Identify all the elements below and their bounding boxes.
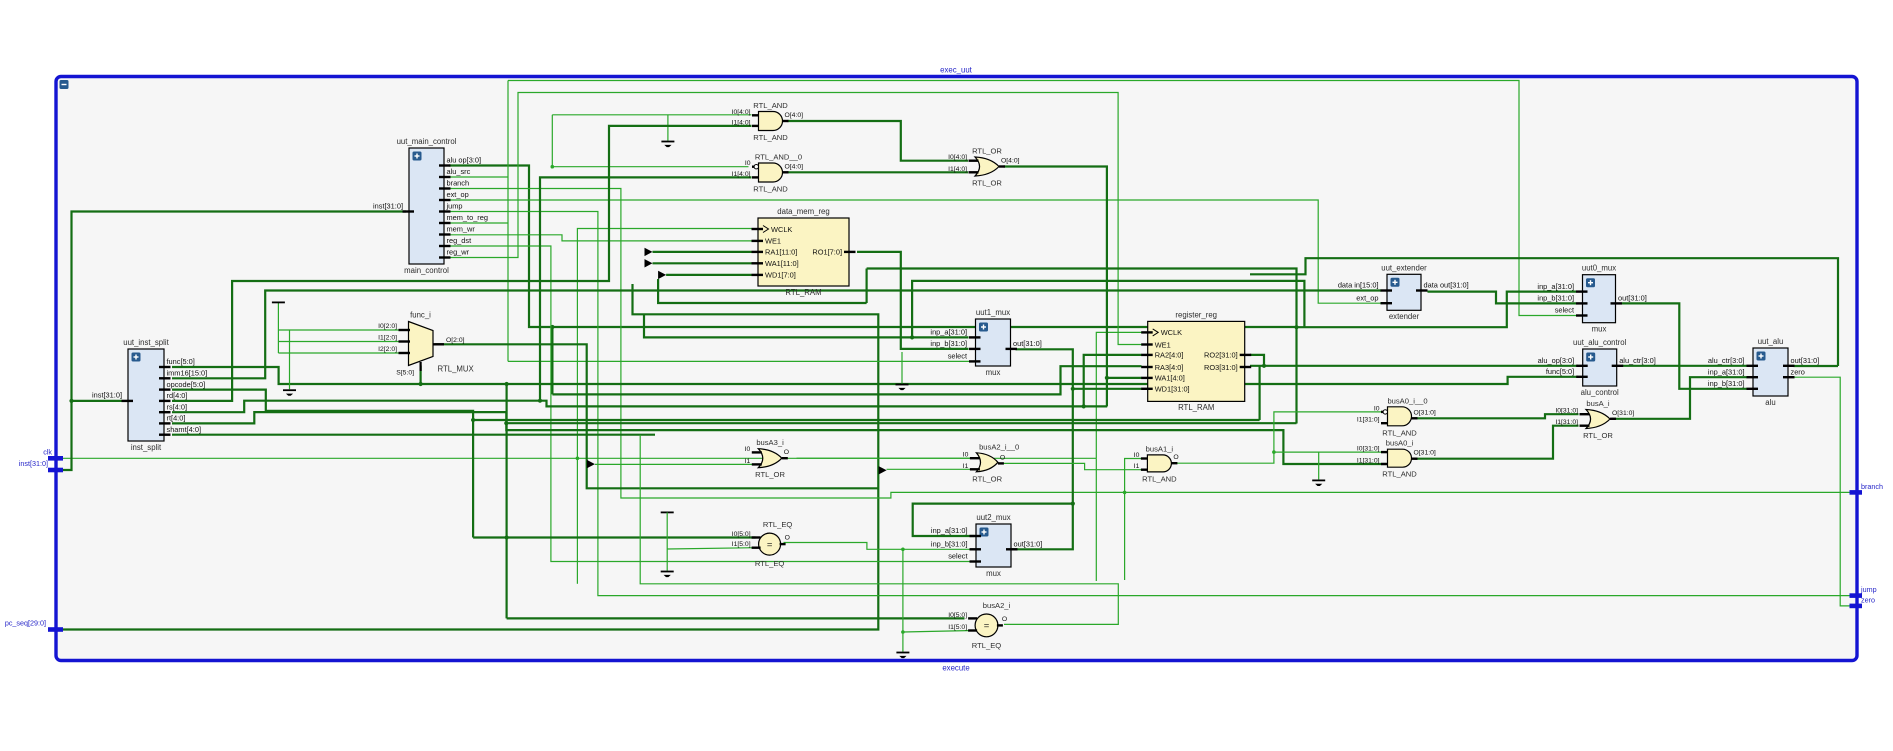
svg-text:RTL_AND: RTL_AND xyxy=(753,185,788,194)
wire eq1 const chain xyxy=(666,512,668,570)
module uut_extender xyxy=(1338,263,1469,321)
wire func_i I2 feed xyxy=(278,352,402,354)
wire alu_src / mem_to_reg vertical xyxy=(507,81,509,362)
svg-text:func[5:0]: func[5:0] xyxy=(1546,367,1574,376)
svg-text:I1[2:0]: I1[2:0] xyxy=(378,334,397,341)
wire busA2_i O return xyxy=(640,435,1118,625)
mux uut1_mux xyxy=(930,308,1041,377)
junction alu_op / RA3 riser xyxy=(550,325,554,329)
svg-text:inst[31:0]: inst[31:0] xyxy=(373,202,403,211)
svg-text:I1[5:0]: I1[5:0] xyxy=(732,541,751,548)
svg-text:O[4:0]: O[4:0] xyxy=(1001,158,1020,165)
wire uut1_mux inp_a feed xyxy=(644,314,969,337)
wire busA3_i I1 feed xyxy=(595,463,752,465)
svg-text:exec_uut: exec_uut xyxy=(940,66,972,75)
svg-text:S[5:0]: S[5:0] xyxy=(396,370,414,377)
wire WA1 feed xyxy=(653,262,752,264)
svg-text:alu_src: alu_src xyxy=(447,167,471,176)
svg-text:func[5:0]: func[5:0] xyxy=(167,357,195,366)
junction rt split xyxy=(504,421,508,425)
wire busA2_i I1 chain xyxy=(902,549,904,651)
svg-text:busA0_i__0: busA0_i__0 xyxy=(1387,396,1427,405)
svg-text:I1[4:0]: I1[4:0] xyxy=(732,119,751,126)
wire RO3 row drop to east row xyxy=(1258,366,1260,420)
wire R3 trunk xyxy=(912,281,1304,338)
svg-text:alu_op[3:0]: alu_op[3:0] xyxy=(1538,356,1575,365)
port zero xyxy=(1850,595,1875,606)
svg-text:imm16[15:0]: imm16[15:0] xyxy=(167,369,208,378)
svg-text:RTL_AND: RTL_AND xyxy=(753,101,788,110)
svg-text:uut_alu_control: uut_alu_control xyxy=(1573,338,1627,347)
svg-text:jump: jump xyxy=(1860,585,1877,594)
svg-text:O[31:0]: O[31:0] xyxy=(1414,409,1436,416)
svg-text:out[31:0]: out[31:0] xyxy=(1013,339,1042,348)
svg-text:inst_split: inst_split xyxy=(131,443,162,452)
svg-text:select: select xyxy=(1555,306,1574,315)
wire func_i const chain xyxy=(277,302,279,353)
wire func[5:0] to RTL_MUX select xyxy=(172,367,1578,384)
svg-text:RTL_EQ: RTL_EQ xyxy=(972,641,1001,650)
svg-text:I1[5:0]: I1[5:0] xyxy=(948,624,967,631)
wire RO3[31:0] to alu_control alu_op xyxy=(1250,365,1578,367)
svg-text:ext_op: ext_op xyxy=(447,190,469,199)
junction R2 / reg-file row xyxy=(1294,325,1298,329)
svg-text:I1[31:0]: I1[31:0] xyxy=(1357,458,1380,465)
svg-text:inp_a[31:0]: inp_a[31:0] xyxy=(1537,282,1574,291)
junction func / eq tap xyxy=(505,382,509,386)
junction mux1 out / register WD1 xyxy=(1071,387,1075,391)
junction clk / data_mem branch xyxy=(576,457,580,461)
svg-text:alu op[3:0]: alu op[3:0] xyxy=(447,156,482,165)
svg-text:RTL_OR: RTL_OR xyxy=(972,179,1002,188)
wire alu_op[3:0] xyxy=(449,166,1297,328)
wire RTL_AND O to RTL_OR I0 xyxy=(788,121,969,161)
svg-text:data out[31:0]: data out[31:0] xyxy=(1424,281,1469,290)
svg-text:RTL_OR: RTL_OR xyxy=(1583,431,1613,440)
wire writeback trunk R2 xyxy=(867,269,1297,424)
svg-text:uut2_mux: uut2_mux xyxy=(976,513,1010,522)
wire RA3 row west riser xyxy=(551,327,553,394)
and gate RTL_AND (top) xyxy=(732,101,804,142)
wire func_i output O[2:0] xyxy=(435,344,878,488)
svg-text:I0: I0 xyxy=(1374,405,1380,412)
svg-text:out[31:0]: out[31:0] xyxy=(1014,540,1043,549)
wire rs[4:0] xyxy=(172,401,1107,413)
module uut_alu_control xyxy=(1538,338,1656,397)
svg-text:RTL_AND__0: RTL_AND__0 xyxy=(755,153,802,162)
wire alu_src stub xyxy=(449,176,508,178)
svg-text:zero: zero xyxy=(1861,595,1875,604)
wire jump xyxy=(449,212,1850,596)
and gate busA0_i__0 xyxy=(1357,396,1436,437)
ram register_reg (RTL_RAM) xyxy=(1141,310,1251,412)
svg-text:register_reg: register_reg xyxy=(1175,310,1217,319)
svg-text:WCLK: WCLK xyxy=(771,225,792,234)
wire RO2[31:0] xyxy=(1250,355,1264,366)
wire alu_src top run to uut0_mux select xyxy=(508,81,1576,316)
svg-text:uut_alu: uut_alu xyxy=(1758,337,1784,346)
and gate busA1_i xyxy=(1134,444,1179,483)
svg-text:clk: clk xyxy=(43,447,52,456)
wire func_i I0 feed xyxy=(278,329,402,331)
svg-text:RO1[7:0]: RO1[7:0] xyxy=(812,248,842,257)
wire opcode east branch xyxy=(473,419,1260,421)
junction inp_b / busA2 drop xyxy=(901,548,905,552)
junction busA1_i O split xyxy=(1272,450,1276,454)
svg-text:reg_wr: reg_wr xyxy=(447,248,470,257)
svg-text:busA1_i: busA1_i xyxy=(1146,444,1174,453)
const one bar (func_i) xyxy=(272,301,285,303)
wire busA0_i O to busA_i I1 xyxy=(1415,426,1579,459)
svg-text:inp_b[31:0]: inp_b[31:0] xyxy=(1537,294,1574,303)
or gate busA_i xyxy=(1555,399,1634,440)
junction inp_a row / R3 drop xyxy=(910,335,914,339)
svg-text:I0[2:0]: I0[2:0] xyxy=(378,323,397,330)
mux uut0_mux xyxy=(1537,264,1646,334)
svg-text:data in[15:0]: data in[15:0] xyxy=(1338,281,1379,290)
svg-text:O: O xyxy=(1002,616,1007,623)
wire clk rise to register WCLK xyxy=(1096,332,1141,458)
wire func mux S stub xyxy=(420,366,422,385)
wire alu_ctr[3:0] xyxy=(1622,365,1747,367)
junction OR trunk / WA1 xyxy=(1105,376,1109,380)
svg-text:RTL_EQ: RTL_EQ xyxy=(763,520,792,529)
junction branch row / busA1_i I0 xyxy=(1123,491,1127,495)
svg-text:I0[4:0]: I0[4:0] xyxy=(732,109,751,116)
and gate busA0_i xyxy=(1357,439,1436,479)
svg-text:RTL_AND: RTL_AND xyxy=(1382,470,1417,479)
wire uut0_mux out to alu inp_b xyxy=(1622,303,1747,388)
svg-text:out[31:0]: out[31:0] xyxy=(1618,294,1647,303)
svg-text:out[31:0]: out[31:0] xyxy=(1791,356,1820,365)
wire alu-out return xyxy=(1250,258,1838,366)
wire vertical net near register xyxy=(1095,458,1097,581)
or gate busA2_i__0 xyxy=(963,442,1019,483)
svg-text:I0: I0 xyxy=(745,446,751,453)
wire busA3_i O to busA2_i__0 I0 xyxy=(797,457,976,459)
svg-text:alu_control: alu_control xyxy=(1581,388,1619,397)
svg-text:select: select xyxy=(948,552,967,561)
svg-text:func_i: func_i xyxy=(410,311,431,320)
svg-text:WA1[11:0]: WA1[11:0] xyxy=(765,259,799,268)
svg-text:pc_seq[29:0]: pc_seq[29:0] xyxy=(5,619,46,628)
svg-text:inp_a[31:0]: inp_a[31:0] xyxy=(930,328,967,337)
svg-text:alu_ctr[3:0]: alu_ctr[3:0] xyxy=(1619,356,1656,365)
wire busA2_i__0 O to busA1_i I1 xyxy=(1003,463,1145,469)
svg-text:RA2[4:0]: RA2[4:0] xyxy=(1155,351,1184,360)
wire busA1_i O to busA0 gates xyxy=(1175,412,1385,463)
wire WA1 feed from OR output trunk xyxy=(1107,377,1142,379)
svg-text:I1[31:0]: I1[31:0] xyxy=(1357,417,1380,424)
svg-text:rt[4:0]: rt[4:0] xyxy=(167,414,186,423)
wire EQ1 O to uut2_mux inp_b xyxy=(784,543,975,550)
svg-text:mem_to_reg: mem_to_reg xyxy=(447,213,489,222)
svg-text:RTL_RAM: RTL_RAM xyxy=(785,288,821,297)
svg-text:I0[31:0]: I0[31:0] xyxy=(1357,446,1380,453)
wire const0 ground drop xyxy=(667,115,669,141)
svg-text:O: O xyxy=(1000,454,1005,461)
wire pc_seq[29:0] xyxy=(57,284,878,630)
svg-text:RTL_EQ: RTL_EQ xyxy=(755,559,784,568)
svg-text:I0: I0 xyxy=(745,160,751,167)
svg-text:WE1: WE1 xyxy=(765,237,781,246)
svg-text:=: = xyxy=(767,539,773,550)
svg-text:I0[5:0]: I0[5:0] xyxy=(948,612,967,619)
wire const0 to RTL_AND__0 I0 xyxy=(552,166,748,168)
svg-text:RTL_AND: RTL_AND xyxy=(1142,474,1177,483)
junction mux1 out / mem row xyxy=(1071,502,1075,506)
wire rt[4:0] xyxy=(172,412,1387,464)
wire func_i const ground leg xyxy=(289,330,291,389)
wire eq feed vertical xyxy=(506,384,508,618)
svg-text:inp_b[31:0]: inp_b[31:0] xyxy=(1708,379,1745,388)
wire reg-file row to uut0_mux inp_a xyxy=(1297,292,1577,328)
svg-text:RTL_OR: RTL_OR xyxy=(972,474,1002,483)
svg-text:alu_ctr[3:0]: alu_ctr[3:0] xyxy=(1708,356,1745,365)
ground busA2_i xyxy=(896,653,909,659)
svg-text:rs[4:0]: rs[4:0] xyxy=(167,402,188,411)
svg-text:O[31:0]: O[31:0] xyxy=(1612,410,1634,417)
svg-text:O: O xyxy=(1173,454,1178,461)
svg-text:zero: zero xyxy=(1791,367,1805,376)
svg-text:I0[5:0]: I0[5:0] xyxy=(732,531,751,538)
svg-text:opcode[5:0]: opcode[5:0] xyxy=(167,380,206,389)
svg-text:select: select xyxy=(948,352,967,361)
wire inst[31:0] from port xyxy=(57,212,406,471)
wire RO1 to uut1_mux inp_b xyxy=(857,252,969,349)
svg-text:=: = xyxy=(984,621,990,632)
ground near RTL_AND xyxy=(661,142,674,148)
svg-text:O: O xyxy=(785,535,790,542)
junction eq1 I0 tap xyxy=(505,535,509,539)
svg-text:WE1: WE1 xyxy=(1155,340,1171,349)
net arrow RA1 xyxy=(645,248,653,256)
wire RA2 riser xyxy=(1084,355,1142,407)
wire shamt[4:0] xyxy=(172,434,655,436)
svg-text:RA1[11:0]: RA1[11:0] xyxy=(765,248,797,257)
and gate RTL_AND__0 xyxy=(732,153,804,194)
svg-text:RTL_AND: RTL_AND xyxy=(753,133,788,142)
svg-text:RTL_AND: RTL_AND xyxy=(1382,428,1417,437)
wire rd[4:0] xyxy=(172,126,752,401)
wire EQ1 I1 feed xyxy=(667,548,755,549)
wire rt to busA0_i__0 I1 row xyxy=(506,422,1296,424)
svg-text:RTL_OR: RTL_OR xyxy=(972,147,1002,156)
svg-text:branch: branch xyxy=(447,179,470,188)
wire imm16[15:0] to extender xyxy=(172,291,1381,379)
wire RA3 row xyxy=(552,366,1141,394)
svg-text:O: O xyxy=(784,449,789,456)
svg-text:busA2_i: busA2_i xyxy=(983,601,1011,610)
svg-text:inst[31:0]: inst[31:0] xyxy=(19,459,48,468)
svg-text:RTL_OR: RTL_OR xyxy=(755,470,785,479)
junction inst bus xyxy=(69,399,73,403)
collapse icon xyxy=(60,80,69,89)
svg-text:uut_extender: uut_extender xyxy=(1381,263,1427,272)
ground near busA0_i xyxy=(1312,480,1325,486)
svg-text:O[4:0]: O[4:0] xyxy=(785,112,804,119)
svg-text:I1: I1 xyxy=(1134,463,1140,470)
wire select gnd drop xyxy=(901,352,903,384)
port jump xyxy=(1850,585,1877,596)
junction rs row / RA2 riser xyxy=(1082,404,1086,408)
svg-text:uut0_mux: uut0_mux xyxy=(1582,264,1616,273)
svg-text:mux: mux xyxy=(986,569,1001,578)
wire register WD1 feed xyxy=(1073,388,1142,390)
port pc_seq[29:0] xyxy=(5,619,63,630)
svg-text:alu: alu xyxy=(1765,398,1775,407)
net arrow pc_seq tap to busA2_i__0.I1 xyxy=(879,466,887,474)
svg-text:inp_b[31:0]: inp_b[31:0] xyxy=(930,339,967,348)
wire busA2_i I1 feed xyxy=(903,631,973,633)
svg-text:RO3[31:0]: RO3[31:0] xyxy=(1204,363,1238,372)
wire busA0_i__0 O to busA_i I0 xyxy=(1415,414,1579,418)
port inst[31:0] xyxy=(19,459,63,470)
svg-text:mux: mux xyxy=(986,368,1001,377)
svg-text:I2[2:0]: I2[2:0] xyxy=(378,346,397,353)
svg-text:branch: branch xyxy=(1861,482,1883,491)
svg-text:WD1[31:0]: WD1[31:0] xyxy=(1155,385,1190,394)
wire opcode[5:0] xyxy=(172,390,473,538)
wire alu zero xyxy=(1794,377,1851,606)
svg-text:shamt[4:0]: shamt[4:0] xyxy=(167,425,202,434)
junction opcode branch xyxy=(471,418,475,422)
svg-text:inp_a[31:0]: inp_a[31:0] xyxy=(931,526,968,535)
svg-text:reg_dst: reg_dst xyxy=(447,236,472,245)
wire RA1 feed xyxy=(653,251,752,253)
svg-text:I0: I0 xyxy=(963,452,969,459)
wire WD1 south trunk xyxy=(658,279,867,303)
module uut_inst_split U2 xyxy=(122,338,208,452)
wire RTL_AND__0 O to RTL_OR I1 xyxy=(788,171,969,173)
port branch xyxy=(1850,482,1883,493)
net arrow WD1 xyxy=(658,271,666,279)
or gate busA3_i xyxy=(745,438,789,479)
junction RO2 / RO3 row xyxy=(1262,364,1266,368)
svg-text:jump: jump xyxy=(446,202,463,211)
ram data_mem_reg (RTL_RAM) xyxy=(752,207,856,297)
net arrow WA1 xyxy=(645,259,653,267)
svg-text:I0: I0 xyxy=(1134,452,1140,459)
ground eq1 const xyxy=(661,572,674,578)
wire clk trunk xyxy=(57,457,1096,459)
wire busA_i O to alu inp_a xyxy=(1612,377,1748,419)
wire WD1 feed xyxy=(666,274,751,276)
wire busA2_i I0 feed xyxy=(507,617,965,619)
svg-text:rd[4:0]: rd[4:0] xyxy=(167,391,188,400)
eq gate RTL_EQ xyxy=(732,520,793,568)
junction const0 xyxy=(551,165,555,169)
ground near uut1_mux xyxy=(896,385,909,391)
mux func_i (RTL_MUX) xyxy=(378,311,474,377)
wire clk rise to data_mem WCLK xyxy=(577,229,751,459)
wire const0 vertical xyxy=(551,115,553,167)
wire busA1_i I0 riser xyxy=(1125,459,1145,581)
wire func_i I1 feed xyxy=(278,341,402,343)
svg-text:I1: I1 xyxy=(745,458,751,465)
wire mem_to_reg stub xyxy=(449,222,508,224)
svg-text:mem_wr: mem_wr xyxy=(447,225,476,234)
svg-text:I1: I1 xyxy=(963,463,969,470)
svg-text:busA_i: busA_i xyxy=(1586,399,1610,408)
svg-text:O[2:0]: O[2:0] xyxy=(446,337,465,344)
mux uut2_mux xyxy=(931,513,1042,578)
svg-text:busA3_i: busA3_i xyxy=(756,438,784,447)
wire trunk R2 vertical head xyxy=(865,269,867,304)
svg-text:inp_a[31:0]: inp_a[31:0] xyxy=(1708,367,1745,376)
svg-text:I1[31:0]: I1[31:0] xyxy=(1555,419,1578,426)
svg-text:WA1[4:0]: WA1[4:0] xyxy=(1155,374,1185,383)
module uut_alu xyxy=(1708,337,1819,407)
svg-text:inp_b[31:0]: inp_b[31:0] xyxy=(931,540,968,549)
svg-text:extender: extender xyxy=(1389,312,1420,321)
or gate RTL_OR (top) xyxy=(948,147,1020,188)
wire inst[31:0] branch to inst_split xyxy=(72,400,123,402)
wire alu out xyxy=(1794,365,1839,367)
svg-text:uut1_mux: uut1_mux xyxy=(976,308,1010,317)
svg-text:WD1[7:0]: WD1[7:0] xyxy=(765,271,796,280)
module boundary exec_uut / execute (blue frame) xyxy=(56,77,1857,661)
svg-text:data_mem_reg: data_mem_reg xyxy=(777,207,829,216)
junction busA2_i I1 xyxy=(901,630,905,634)
junction func / mux S tap xyxy=(419,382,423,386)
wire reg_dst to uut2_mux select xyxy=(449,246,993,562)
wire pc_seq tap to busA2_i__0 I1 xyxy=(887,468,975,470)
wire reg_wr to register WE1 xyxy=(449,93,1142,345)
wire clk drop to return row xyxy=(576,458,578,584)
junction rs / gate feed xyxy=(538,399,542,403)
svg-text:WCLK: WCLK xyxy=(1161,328,1182,337)
svg-text:I0[4:0]: I0[4:0] xyxy=(948,154,967,161)
const bar (eq1) xyxy=(661,511,674,513)
svg-text:I1[4:0]: I1[4:0] xyxy=(732,171,751,178)
module uut_main_control U1 xyxy=(397,137,488,275)
svg-text:RO2[31:0]: RO2[31:0] xyxy=(1204,351,1238,360)
eq gate busA2_i xyxy=(948,601,1010,650)
wire mem_to_reg to uut1_mux select xyxy=(508,360,969,362)
svg-text:inst[31:0]: inst[31:0] xyxy=(92,391,122,400)
svg-text:O[4:0]: O[4:0] xyxy=(785,163,804,170)
wire busA0_i I0 gnd drop xyxy=(1318,452,1320,479)
svg-text:RTL_MUX: RTL_MUX xyxy=(438,365,475,374)
svg-text:execute: execute xyxy=(942,664,969,673)
ground func_i xyxy=(283,390,296,396)
wire branch xyxy=(449,189,1850,499)
svg-text:I0[31:0]: I0[31:0] xyxy=(1555,408,1578,415)
svg-text:RA3[4:0]: RA3[4:0] xyxy=(1155,363,1184,372)
net arrow func_i tap to busA3_i.I1 xyxy=(587,460,595,468)
svg-text:ext_op: ext_op xyxy=(1356,293,1378,302)
wire const0 to RTL_AND I0 xyxy=(552,114,751,116)
wire mem row west xyxy=(913,504,1073,536)
svg-text:RTL_RAM: RTL_RAM xyxy=(1178,403,1214,412)
svg-text:uut_main_control: uut_main_control xyxy=(397,137,457,146)
wire ext_op xyxy=(449,200,1381,303)
wire data_out to uut0_mux inp_b xyxy=(1428,292,1577,304)
svg-text:uut_inst_split: uut_inst_split xyxy=(123,338,169,347)
wire mem_wr to data_mem WE1 xyxy=(449,235,752,241)
svg-text:main_control: main_control xyxy=(404,266,449,275)
wire RTL_AND__0 I1 feed xyxy=(540,177,752,400)
svg-text:busA0_i: busA0_i xyxy=(1386,439,1414,448)
svg-text:I1[4:0]: I1[4:0] xyxy=(948,166,967,173)
wire busA0_i I0 feed xyxy=(1274,451,1387,453)
svg-text:mux: mux xyxy=(1592,325,1607,334)
svg-text:O[31:0]: O[31:0] xyxy=(1414,450,1436,457)
port clk xyxy=(43,447,63,458)
wire uut1_mux out trunk xyxy=(1012,349,1073,549)
wire EQ1 I0 feed xyxy=(473,536,755,538)
